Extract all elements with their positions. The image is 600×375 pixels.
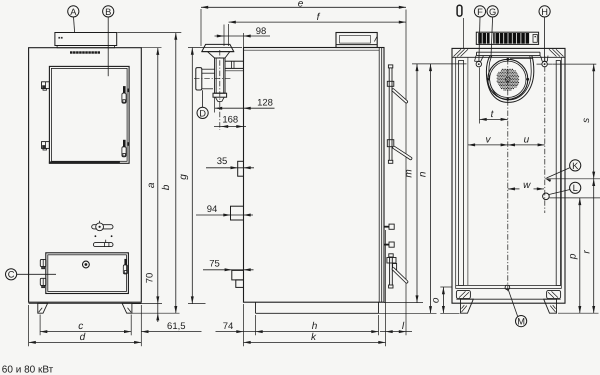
svg-text:g: g	[178, 174, 189, 180]
svg-text:h: h	[312, 321, 318, 332]
svg-text:168: 168	[222, 114, 238, 125]
svg-text:60 и 80 кВт: 60 и 80 кВт	[2, 365, 54, 375]
svg-text:61,5: 61,5	[167, 321, 186, 332]
svg-text:b: b	[161, 184, 172, 190]
svg-text:35: 35	[217, 156, 228, 167]
svg-text:s: s	[581, 118, 592, 123]
svg-text:M: M	[517, 317, 525, 327]
svg-text:p: p	[567, 253, 578, 260]
svg-text:m: m	[403, 169, 414, 177]
svg-text:c: c	[78, 321, 83, 332]
svg-text:98: 98	[256, 26, 267, 37]
svg-text:B: B	[105, 7, 111, 17]
svg-text:G: G	[489, 7, 496, 17]
svg-text:o: o	[431, 297, 442, 303]
svg-text:75: 75	[209, 258, 220, 269]
svg-text:A: A	[70, 7, 77, 17]
svg-text:94: 94	[207, 204, 218, 215]
svg-text:K: K	[572, 161, 579, 171]
svg-text:L: L	[573, 183, 578, 193]
svg-text:d: d	[80, 332, 86, 343]
svg-text:e: e	[298, 0, 304, 10]
svg-text:a: a	[146, 182, 157, 188]
svg-text:74: 74	[223, 321, 234, 332]
svg-text:n: n	[417, 171, 428, 177]
svg-text:u: u	[524, 135, 530, 146]
svg-text:w: w	[523, 180, 531, 191]
svg-text:70: 70	[145, 273, 156, 284]
svg-text:F: F	[477, 7, 483, 17]
svg-text:C: C	[8, 270, 15, 280]
svg-text:D: D	[199, 108, 206, 118]
svg-text:128: 128	[257, 98, 273, 109]
svg-text:H: H	[541, 7, 548, 17]
